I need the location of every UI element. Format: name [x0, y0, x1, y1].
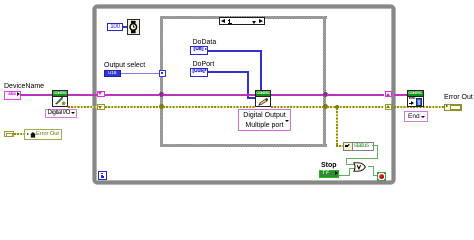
shift register left magenta [97, 91, 105, 97]
Digital I/O label box [45, 109, 77, 118]
wire case right magenta [271, 94, 323, 96]
constant 100 [107, 23, 123, 31]
DeviceName label [4, 83, 44, 90]
tunnel case left error [159, 104, 164, 109]
wire stop into or [349, 168, 356, 169]
case selector label "1" [219, 17, 265, 25]
wire DoPort vertical [247, 71, 249, 99]
global variable Error Out [24, 129, 62, 140]
DoData label [193, 39, 217, 46]
case selector terminal [159, 70, 166, 77]
wire status down2 [346, 158, 347, 165]
wire or down [373, 166, 374, 176]
or function [353, 162, 366, 172]
wire status into or [346, 164, 356, 165]
DeviceName string terminal [4, 91, 21, 100]
wire init to left SR magenta [68, 94, 97, 96]
junction error [335, 105, 340, 110]
wire case right error [271, 106, 323, 108]
wire DoPort horizontal [208, 71, 250, 73]
wire loop to errorout error [394, 106, 444, 108]
wire error in to global [14, 133, 24, 135]
wire status left [346, 158, 379, 159]
iteration terminal i [98, 171, 107, 180]
output subVI CONTEC pencil [255, 90, 271, 107]
unbundle by name status [343, 142, 374, 152]
tunnel case right magenta [323, 92, 328, 97]
wire SR to case magenta [105, 94, 159, 96]
wire DoPort into subvi [247, 97, 255, 99]
wire output select to case selector [121, 73, 159, 74]
shift register right magenta [385, 91, 393, 97]
case structure border right [323, 16, 326, 147]
error in constant bottom left [4, 131, 14, 137]
wire SR to case error [105, 106, 159, 108]
Error Out indicator terminal [444, 104, 462, 111]
wire or into cond [373, 175, 378, 176]
DoPort label [193, 61, 215, 68]
wire DoData horizontal [208, 50, 263, 52]
wait (ms) function [127, 19, 140, 35]
wire error into unbundle [336, 145, 344, 147]
DoPort terminal [190, 68, 208, 77]
case structure border bottom [160, 144, 327, 147]
End label box [404, 111, 428, 122]
loop condition terminal [377, 172, 387, 182]
wire error down to unbundle [336, 108, 338, 147]
tunnel case left magenta [159, 92, 164, 97]
wire to right SR magenta [327, 94, 384, 96]
wire DoData vertical [260, 50, 262, 91]
init subVI CONTEC Digital I/O [52, 90, 68, 107]
Stop boolean terminal [319, 170, 340, 178]
Output select label [104, 62, 145, 69]
wire or out [368, 166, 375, 167]
wire status down [377, 145, 378, 159]
wire to right SR error [327, 106, 384, 108]
wire stop up [349, 168, 350, 176]
Stop label [321, 162, 337, 169]
wire 100 to wait [122, 26, 127, 28]
while loop [93, 5, 395, 184]
wire stop right [339, 175, 350, 176]
wire init to left SR error [68, 106, 97, 108]
shift register left error [97, 104, 105, 110]
shift register right error [385, 104, 393, 110]
Digital Output Multiple port label [238, 109, 291, 131]
end subVI CONTEC exit [407, 90, 424, 107]
wire case inside error [163, 106, 255, 108]
Output select terminal [104, 70, 122, 77]
case structure border left [160, 16, 163, 147]
wire case inside magenta [163, 94, 255, 96]
wire status out right [372, 145, 378, 146]
Error Out label [444, 94, 473, 101]
wire loop to end magenta [394, 94, 407, 96]
tunnel case right error [323, 104, 328, 109]
DoData terminal [190, 46, 208, 55]
case structure border top [160, 16, 327, 19]
wire devicename to init [20, 94, 53, 96]
